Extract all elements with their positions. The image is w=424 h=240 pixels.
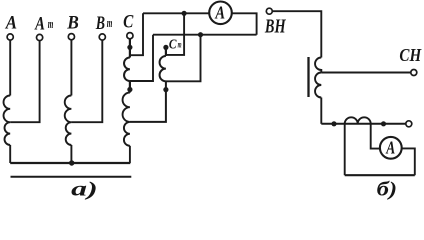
terminal B bbox=[68, 34, 74, 40]
ammeter A1 bbox=[209, 2, 232, 25]
wire neutral bottom bus bbox=[10, 162, 130, 164]
junction W2-Cт bbox=[198, 32, 203, 37]
terminal BH bbox=[266, 8, 272, 14]
junction C middle bbox=[127, 87, 132, 92]
wire W1 right drop bbox=[232, 13, 256, 34]
wire ammeter to coil bbox=[371, 124, 381, 149]
wire C stem bbox=[129, 39, 131, 58]
wire BH to winding bbox=[272, 11, 321, 57]
winding C lower section bbox=[123, 93, 130, 146]
terminal LV bbox=[406, 121, 412, 127]
svg-text:СН: СН bbox=[399, 45, 422, 65]
terminal C bbox=[127, 33, 133, 39]
svg-text:т: т bbox=[107, 15, 113, 30]
junction LV left bbox=[331, 121, 336, 126]
ammeter A2 bbox=[380, 137, 402, 159]
winding C upper section bbox=[124, 58, 130, 82]
wire winding to line bbox=[320, 98, 322, 124]
wire W1 ammeter bus top bbox=[143, 12, 210, 14]
winding A (phase A coil) bbox=[4, 96, 11, 145]
wire shunt right riser bbox=[401, 148, 415, 175]
svg-text:А: А bbox=[5, 13, 17, 34]
svg-text:В: В bbox=[66, 13, 79, 34]
svg-text:т: т bbox=[48, 16, 54, 31]
terminal CH bbox=[411, 70, 417, 76]
svg-text:т: т bbox=[178, 40, 182, 50]
junction Cт bottom bbox=[163, 87, 168, 92]
svg-text:А: А bbox=[215, 3, 226, 23]
svg-text:А: А bbox=[34, 13, 45, 34]
wire Cт stem bbox=[165, 47, 167, 56]
junction C top bbox=[127, 45, 132, 50]
junction LV right bbox=[381, 121, 386, 126]
winding B (phase B coil) bbox=[65, 96, 72, 145]
junction W1-Cт bbox=[182, 11, 187, 16]
current-transformer coil bbox=[345, 117, 371, 123]
wire C mid stem bbox=[129, 81, 131, 93]
wire C tail bbox=[129, 146, 131, 163]
wire Cт tap to ammeter bus W1 bbox=[166, 13, 184, 55]
wire A tail bbox=[9, 145, 11, 163]
junction Cт top bbox=[163, 45, 168, 50]
junction neutral bbox=[69, 160, 74, 165]
wire Aт tap bbox=[10, 41, 39, 123]
wire Cт tap to bus W2 bbox=[166, 35, 201, 82]
underline a bbox=[11, 176, 132, 178]
terminal Bт bbox=[99, 34, 105, 40]
wire shunt bottom bbox=[345, 174, 415, 176]
winding T2 primary upper bbox=[315, 58, 321, 73]
winding Cт bbox=[160, 56, 166, 81]
svg-text:а): а) bbox=[71, 178, 98, 200]
wire Cт lower stem bbox=[130, 81, 166, 122]
terminal Aт bbox=[37, 34, 43, 40]
svg-text:б): б) bbox=[377, 178, 398, 200]
wire LV line bbox=[321, 123, 406, 125]
svg-text:А: А bbox=[386, 137, 396, 157]
wire B stem bbox=[70, 40, 72, 96]
wire W2 return bus bbox=[153, 34, 257, 36]
wire shunt left drop bbox=[344, 124, 346, 175]
wire C tap to ammeter bus bbox=[130, 13, 143, 55]
core T2 bbox=[307, 57, 309, 97]
winding T2 primary lower bbox=[315, 73, 321, 98]
svg-text:В: В bbox=[95, 13, 105, 34]
svg-text:ВН: ВН bbox=[264, 17, 286, 38]
wire A stem bbox=[9, 40, 11, 95]
wire C tap to lower bus W2 bbox=[130, 35, 153, 81]
wire CH tap bbox=[321, 72, 411, 74]
svg-text:С: С bbox=[169, 37, 177, 52]
wire Bт tap bbox=[71, 40, 102, 122]
terminal A bbox=[7, 34, 13, 40]
wire B tail bbox=[70, 145, 72, 163]
svg-text:С: С bbox=[123, 12, 133, 33]
